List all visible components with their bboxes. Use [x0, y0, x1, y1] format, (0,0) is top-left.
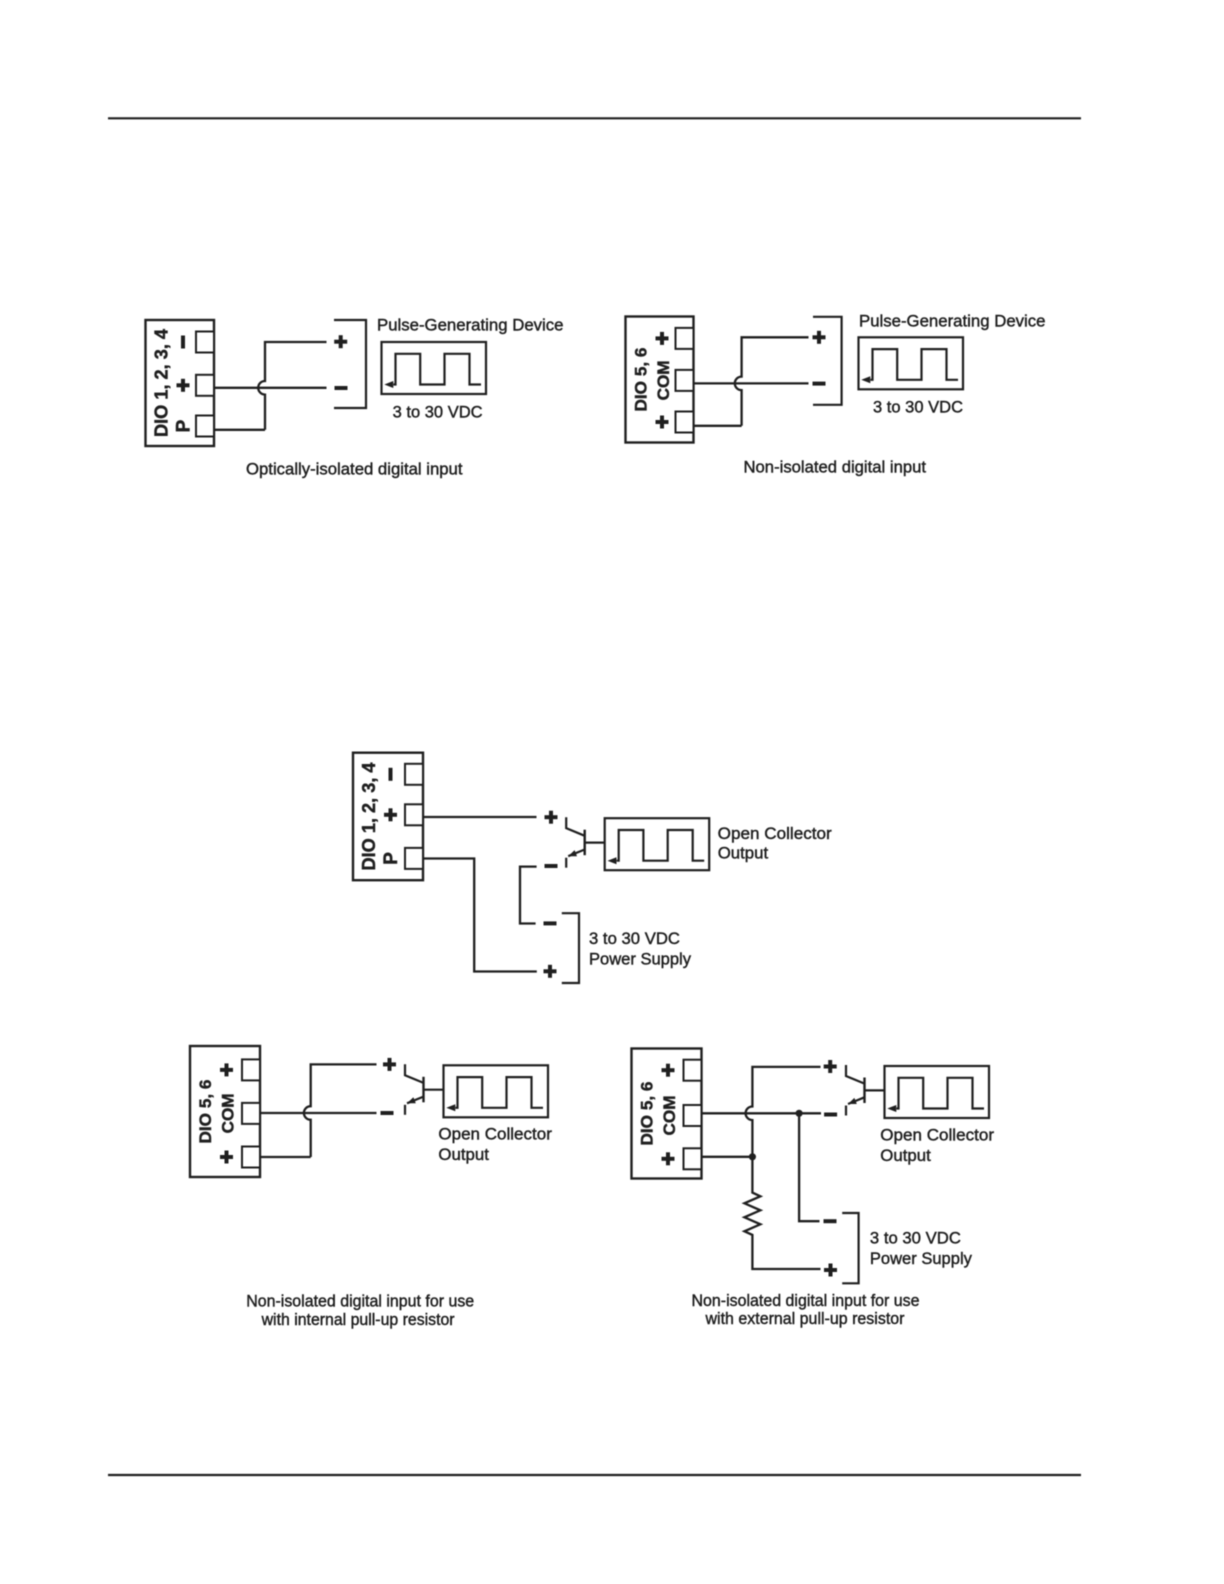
svg-text:3 to 30 VDC: 3 to 30 VDC — [589, 929, 680, 948]
bottom horizontal rule — [108, 1474, 1081, 1476]
transistor Q3 (open collector NPN) — [846, 1065, 885, 1116]
svg-text:COM: COM — [660, 1096, 679, 1136]
wire COM terminal to emitter - — [702, 1112, 821, 1114]
label 3 to 30 VDC — [873, 398, 963, 417]
svg-text:3 to 30 VDC: 3 to 30 VDC — [873, 398, 963, 417]
pulse device bracket — [813, 317, 842, 405]
pulse waveform box — [885, 1066, 990, 1118]
wire P terminal to supply + — [423, 859, 537, 972]
label Power Supply — [870, 1249, 972, 1268]
power supply bracket — [842, 1213, 858, 1283]
pulse waveform box — [859, 337, 964, 389]
svg-text:Output: Output — [438, 1145, 489, 1164]
junction dot on COM wire — [796, 1110, 803, 1117]
pulse waveform box — [605, 818, 710, 870]
wire riser junction to collector (hop over crossing) — [746, 1067, 821, 1157]
wire junction to supply - — [799, 1113, 819, 1221]
resistor R1 (external pull-up) — [744, 1157, 820, 1269]
caption line 1 internal pull-up — [246, 1292, 474, 1310]
svg-text:Open Collector: Open Collector — [718, 824, 832, 843]
label Output — [880, 1146, 931, 1165]
pulse waveform box — [444, 1065, 549, 1117]
label Pulse-Generating Device — [377, 316, 564, 335]
caption optically-isolated digital input — [246, 460, 463, 479]
svg-text:Output: Output — [718, 844, 769, 863]
label Output — [438, 1145, 489, 1164]
label Open Collector — [880, 1125, 994, 1144]
svg-text:3 to 30 VDC: 3 to 30 VDC — [870, 1229, 961, 1248]
node + (power supply positive) — [824, 1264, 837, 1277]
pulse device bracket — [334, 320, 366, 408]
caption non-isolated digital input — [744, 458, 927, 477]
svg-text:Open Collector: Open Collector — [880, 1125, 994, 1144]
label 3 to 30 VDC — [589, 929, 680, 948]
wire P terminal horizontal — [214, 429, 265, 431]
node + (pulse device positive) — [334, 335, 347, 348]
wire + terminal to pull-up junction — [702, 1156, 753, 1158]
terminal block DIO 5,6 COM (external pull-up) — [632, 1049, 702, 1179]
node - (emitter) — [824, 1113, 837, 1117]
caption line 2 external pull-up — [705, 1310, 905, 1328]
caption line 2 internal pull-up — [261, 1311, 455, 1329]
power supply bracket — [562, 913, 579, 983]
svg-text:with internal pull-up resistor: with internal pull-up resistor — [261, 1311, 455, 1329]
svg-text:DIO 5, 6: DIO 5, 6 — [196, 1080, 215, 1144]
node - (emitter) — [381, 1111, 394, 1115]
wire riser + to device + (hop over crossing) — [735, 337, 809, 426]
node + (pulse device positive) — [813, 331, 826, 344]
wire COM terminal to emitter - — [260, 1112, 377, 1114]
terminal block DIO 5,6 COM (non-isolated input) — [626, 317, 694, 443]
junction dot at pull-up resistor — [749, 1153, 756, 1160]
svg-text:Power Supply: Power Supply — [589, 950, 691, 969]
svg-text:COM: COM — [654, 360, 673, 400]
svg-text:Pulse-Generating Device: Pulse-Generating Device — [377, 316, 564, 335]
wire + terminal to device - — [214, 387, 327, 389]
terminal block DIO 5,6 COM (internal pull-up) — [190, 1046, 260, 1177]
pulse waveform box — [382, 342, 487, 394]
label Open Collector — [438, 1125, 552, 1144]
label 3 to 30 VDC — [870, 1229, 961, 1248]
svg-text:Output: Output — [880, 1146, 931, 1165]
wire riser P to device + (hop over crossing) — [258, 342, 326, 430]
svg-text:Non-isolated digital input for: Non-isolated digital input for use — [246, 1292, 474, 1310]
svg-text:COM: COM — [218, 1093, 237, 1133]
label 3 to 30 VDC — [393, 402, 483, 421]
svg-text:Non-isolated digital input for: Non-isolated digital input for use — [692, 1292, 920, 1310]
node + (collector) — [383, 1058, 396, 1071]
wire COM terminal to device - — [694, 382, 809, 384]
wire + terminal horizontal — [260, 1156, 311, 1158]
svg-text:P: P — [174, 419, 195, 432]
label Pulse-Generating Device — [859, 311, 1046, 330]
label Open Collector — [718, 824, 832, 843]
svg-text:Non-isolated digital input: Non-isolated digital input — [744, 458, 927, 477]
node - (pulse device negative) — [813, 382, 826, 386]
svg-text:Pulse-Generating Device: Pulse-Generating Device — [859, 311, 1046, 330]
svg-text:DIO 1, 2, 3, 4: DIO 1, 2, 3, 4 — [152, 329, 172, 437]
wire + terminal horizontal — [694, 425, 742, 427]
svg-text:Optically-isolated digital inp: Optically-isolated digital input — [246, 460, 463, 479]
svg-text:P: P — [381, 852, 402, 865]
transistor Q2 (open collector NPN) — [405, 1064, 444, 1115]
node - (pulse device negative) — [335, 386, 348, 390]
caption line 1 external pull-up — [692, 1292, 920, 1310]
terminal block DIO 1,2,3,4 (open collector) — [353, 753, 423, 881]
node - (emitter) — [545, 864, 558, 868]
terminal block DIO 1,2,3,4 (opt-isolated input) — [146, 320, 215, 446]
svg-text:DIO 5, 6: DIO 5, 6 — [632, 348, 651, 412]
node - (power supply negative) — [544, 921, 557, 925]
node + (power supply positive) — [544, 965, 557, 978]
svg-text:3 to 30 VDC: 3 to 30 VDC — [393, 402, 483, 421]
node + (collector) — [824, 1060, 837, 1073]
transistor Q1 (open collector NPN) — [566, 817, 605, 868]
svg-text:DIO 1, 2, 3, 4: DIO 1, 2, 3, 4 — [359, 763, 379, 871]
top horizontal rule — [108, 117, 1081, 119]
svg-text:with external pull-up resistor: with external pull-up resistor — [705, 1310, 905, 1328]
wire + terminal to collector — [423, 816, 537, 818]
node - (power supply negative) — [824, 1219, 837, 1223]
svg-text:Power Supply: Power Supply — [870, 1249, 972, 1268]
node + (collector) — [545, 811, 558, 824]
label Output — [718, 844, 769, 863]
wire emitter to supply - — [520, 867, 537, 924]
svg-text:DIO 5, 6: DIO 5, 6 — [638, 1082, 657, 1146]
svg-text:Open Collector: Open Collector — [438, 1125, 552, 1144]
label Power Supply — [589, 950, 691, 969]
wire riser + to collector (hop over crossing) — [304, 1064, 377, 1157]
